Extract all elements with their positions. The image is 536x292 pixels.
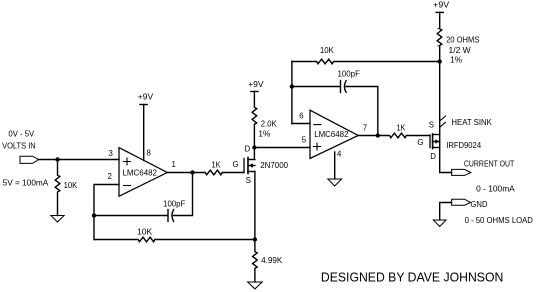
svg-text:S: S — [429, 120, 434, 129]
svg-text:VOLTS IN: VOLTS IN — [2, 141, 36, 150]
svg-text:HEAT SINK: HEAT SINK — [451, 118, 492, 127]
wire pin 6 vertical — [291, 62, 293, 124]
svg-text:4: 4 — [337, 149, 342, 158]
svg-text:1: 1 — [172, 160, 176, 169]
svg-text:1/2 W: 1/2 W — [449, 46, 472, 55]
ground output — [433, 220, 446, 227]
node sense junction — [438, 60, 441, 63]
wire pin 2 — [94, 185, 119, 240]
svg-text:100pF: 100pF — [163, 200, 185, 209]
svg-text:4.99K: 4.99K — [261, 256, 283, 265]
wire pin 6 — [292, 123, 310, 125]
ground U1B — [328, 179, 342, 186]
wire input to pin 3 — [39, 159, 120, 161]
ground input — [51, 216, 64, 223]
svg-text:10K: 10K — [320, 46, 335, 55]
capacitor C1 100pF — [94, 210, 174, 222]
wire and resistor R2 10K feedback — [94, 237, 255, 242]
wire pin 8 power — [143, 105, 145, 161]
svg-text:2N7000: 2N7000 — [260, 161, 288, 170]
op-amp U1A LMC6482 — [119, 148, 167, 197]
resistor R8 20 OHMS — [437, 12, 442, 61]
svg-text:1K: 1K — [212, 160, 222, 169]
svg-text:D: D — [430, 152, 436, 161]
connector J3 GND — [452, 199, 471, 205]
svg-text:3: 3 — [109, 149, 113, 158]
op-amp U1B minus symbol — [314, 124, 321, 126]
capacitor C2 100pF — [292, 81, 378, 93]
node source junction — [253, 238, 256, 241]
svg-text:20 OHMS: 20 OHMS — [446, 35, 480, 44]
op-amp U1B plus symbol — [314, 143, 321, 150]
svg-text:GND: GND — [470, 200, 488, 209]
wire drain to pin 5 — [254, 147, 310, 149]
svg-text:+9V: +9V — [248, 79, 264, 89]
svg-text:7: 7 — [363, 123, 367, 132]
svg-text:G: G — [233, 160, 239, 169]
power bar U1A — [140, 104, 147, 106]
svg-text:10K: 10K — [137, 228, 153, 237]
wire output to feedback cap — [173, 173, 192, 216]
ground R5 — [248, 282, 263, 289]
svg-text:6: 6 — [299, 111, 303, 120]
transistor Q1 2N7000 — [244, 148, 255, 174]
power bar R4 — [251, 91, 258, 93]
transistor Q2 IRFD9024 — [430, 134, 440, 149]
wire pin 4 to ground — [334, 152, 336, 179]
svg-text:0 - 50 OHMS LOAD: 0 - 50 OHMS LOAD — [465, 216, 534, 225]
svg-text:LMC6482: LMC6482 — [123, 169, 158, 178]
svg-text:LMC6482: LMC6482 — [314, 130, 349, 139]
wire output up to cap C2 — [377, 87, 379, 136]
power bar R8 — [436, 11, 443, 13]
node pin 6 cap junction — [290, 85, 293, 88]
svg-text:IRFD9024: IRFD9024 — [446, 141, 481, 150]
svg-text:0 - 100mA: 0 - 100mA — [476, 185, 516, 194]
wire Q2 drain to output — [440, 148, 452, 173]
connector J2 CURRENT OUT — [452, 169, 471, 175]
svg-text:0V - 5V: 0V - 5V — [8, 129, 35, 138]
wire Q2 source vertical — [439, 62, 441, 135]
svg-text:1%: 1% — [450, 55, 462, 64]
heat sink symbol — [440, 116, 446, 127]
svg-text:+9V: +9V — [138, 92, 154, 102]
wire and resistor R6 10K feedback — [292, 59, 440, 64]
svg-text:5: 5 — [302, 136, 307, 145]
svg-text:+9V: +9V — [433, 0, 449, 10]
svg-text:S: S — [246, 176, 251, 185]
svg-text:CURRENT OUT: CURRENT OUT — [464, 159, 515, 168]
svg-text:D: D — [245, 144, 251, 153]
node feedback cap junction — [93, 214, 96, 217]
wire U1B output and resistor R7 1K — [358, 133, 430, 138]
svg-text:5V = 100mA: 5V = 100mA — [3, 179, 49, 188]
svg-text:1%: 1% — [258, 130, 270, 139]
svg-text:G: G — [417, 138, 423, 147]
svg-text:100pF: 100pF — [338, 69, 361, 78]
resistor R4 2.0K — [252, 92, 257, 148]
svg-text:8: 8 — [147, 148, 151, 157]
svg-text:2: 2 — [108, 172, 112, 181]
op-amp U1B LMC6482 — [310, 110, 358, 158]
svg-text:1K: 1K — [397, 123, 407, 132]
resistor R1 10K — [55, 160, 60, 216]
wire GND connector to ground — [440, 203, 452, 221]
resistor R5 4.99K — [253, 240, 258, 283]
node U1B output — [376, 134, 379, 137]
node input junction — [56, 158, 59, 161]
svg-text:10K: 10K — [64, 181, 78, 190]
op-amp U1A plus symbol — [124, 158, 131, 165]
node output U1A — [191, 171, 194, 174]
wire output and resistor R3 1K — [168, 170, 244, 175]
node drain junction — [253, 146, 256, 149]
connector J1 VOLTS IN — [20, 156, 39, 163]
op-amp U1A minus symbol — [124, 185, 131, 187]
svg-text:2.0K: 2.0K — [261, 119, 278, 128]
svg-text:DESIGNED BY DAVE JOHNSON: DESIGNED BY DAVE JOHNSON — [321, 269, 503, 284]
wire Q1 source down — [254, 172, 256, 240]
